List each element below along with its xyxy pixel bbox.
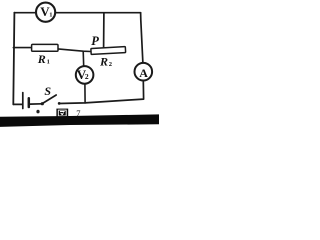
svg-text:2: 2: [109, 61, 112, 68]
svg-text:R: R: [37, 52, 46, 66]
svg-text:S: S: [44, 84, 51, 98]
svg-text:1: 1: [49, 12, 52, 19]
svg-text:P: P: [91, 34, 99, 48]
svg-text:2: 2: [85, 72, 89, 81]
svg-text:1: 1: [47, 59, 50, 66]
svg-text:A: A: [139, 66, 148, 80]
svg-text:R: R: [99, 55, 108, 69]
